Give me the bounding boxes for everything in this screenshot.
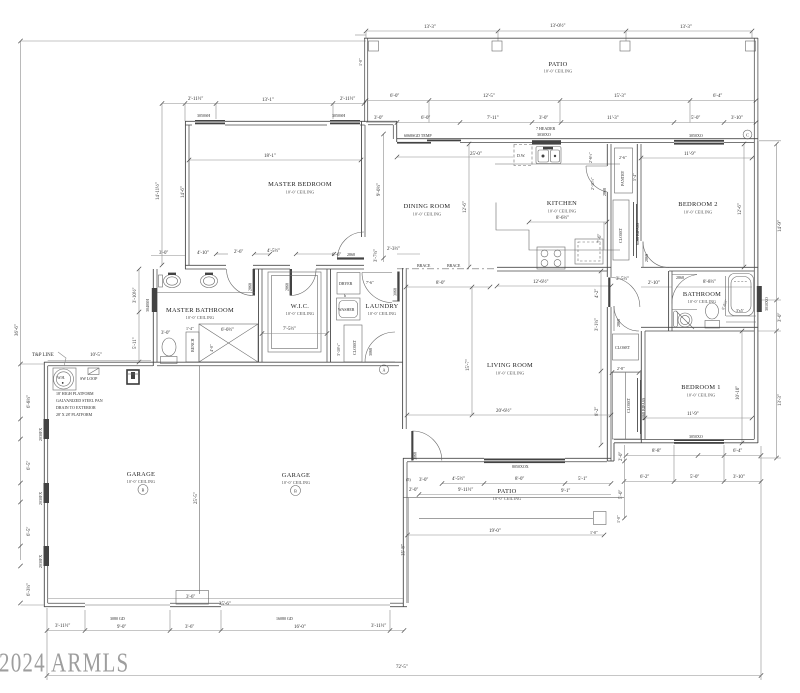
garage divider line [199, 366, 201, 594]
svg-text:8'-8½": 8'-8½" [703, 280, 716, 285]
bathroom vanity edge [672, 309, 697, 311]
interior dim 18-1 [189, 159, 361, 161]
bed1 closet bipass [637, 378, 639, 432]
svg-text:3050SH: 3050SH [332, 113, 345, 118]
living entry door 3068 [412, 431, 442, 461]
svg-text:GALVANIZED STEEL PAN: GALVANIZED STEEL PAN [56, 398, 103, 403]
hall dims left of closets [600, 271, 602, 445]
svg-text:KITCHEN: KITCHEN [547, 200, 577, 207]
svg-text:3'-0": 3'-0" [161, 331, 170, 336]
svg-text:8'-0": 8'-0" [436, 281, 445, 286]
svg-text:3'-11½": 3'-11½" [371, 624, 386, 629]
svg-text:10'-0' CEILING: 10'-0' CEILING [282, 480, 311, 485]
patio step box [594, 512, 607, 525]
patio post 2 [492, 41, 502, 51]
master bath window 3040SH [152, 288, 157, 312]
svg-text:4'-5½": 4'-5½" [452, 477, 465, 482]
svg-text:3080 GD: 3080 GD [110, 616, 125, 621]
svg-text:10'-0' CEILING: 10'-0' CEILING [127, 479, 156, 484]
svg-text:2868: 2868 [616, 319, 621, 327]
svg-text:2024 ARMLS: 2024 ARMLS [0, 648, 129, 678]
bathroom window 3010XO [757, 286, 762, 312]
bedroom2 left wall [636, 144, 638, 241]
svg-text:7'-11": 7'-11" [487, 116, 499, 121]
svg-text:11'-3": 11'-3" [607, 116, 619, 121]
svg-text:8'-8": 8'-8" [652, 449, 661, 454]
patio left wall [364, 38, 366, 122]
bedroom2 dim 12-6 [743, 144, 745, 267]
svg-text:6'-0": 6'-0" [390, 94, 399, 99]
svg-text:1'-0": 1'-0" [616, 515, 621, 523]
svg-text:14'-11½": 14'-11½" [156, 182, 161, 200]
bedroom1 dim 11-9 [645, 417, 752, 419]
svg-text:10'-0' CEILING: 10'-0' CEILING [684, 210, 713, 215]
svg-text:2030FX: 2030FX [38, 428, 43, 441]
garage interior dim 35-6 [48, 598, 403, 600]
svg-text:25'-5": 25'-5" [194, 492, 199, 504]
svg-text:13'-3": 13'-3" [680, 25, 692, 30]
svg-text:3050SH: 3050SH [197, 113, 210, 118]
svg-text:3'-0": 3'-0" [419, 478, 428, 483]
SW loop [88, 368, 99, 375]
bath band bottom wall [153, 361, 403, 363]
svg-text:6068SGD TEMP: 6068SGD TEMP [404, 133, 432, 138]
svg-text:1'-0": 1'-0" [358, 58, 363, 66]
hall door arc lower [365, 332, 395, 362]
panel box [127, 370, 139, 384]
laundry band: dryer [337, 273, 360, 295]
svg-text:3'-7½": 3'-7½" [374, 249, 379, 262]
bedroom1 dim 10-10 [741, 331, 743, 443]
patio post 1 [369, 41, 379, 51]
svg-text:b: b [344, 293, 346, 298]
water heater [54, 369, 74, 389]
sliding glass door 6068SGD [397, 142, 431, 144]
svg-text:14'-9": 14'-9" [778, 220, 783, 232]
kitchen-living south wall [497, 266, 611, 268]
svg-text:PANTRY: PANTRY [620, 170, 625, 186]
patio slab edge [403, 496, 624, 498]
patio top dimension line [366, 30, 752, 32]
garage door 16080 GD [221, 604, 390, 606]
dims below bedroom1 row2 [624, 481, 761, 483]
svg-text:2868: 2868 [602, 188, 607, 196]
svg-text:4'-0": 4'-0" [209, 344, 214, 352]
svg-text:2868: 2868 [644, 254, 649, 262]
svg-text:CLOSET: CLOSET [626, 397, 631, 413]
svg-text:8'-0": 8'-0" [515, 477, 524, 482]
svg-text:2030FX: 2030FX [38, 492, 43, 505]
bathroom toilet [706, 303, 719, 319]
svg-text:2030FX: 2030FX [38, 555, 43, 568]
svg-text:13'-3": 13'-3" [778, 394, 783, 406]
svg-text:3'-5½": 3'-5½" [616, 277, 629, 282]
svg-text:13'-1": 13'-1" [262, 98, 274, 103]
garage door step dim 3-6 [176, 591, 209, 605]
svg-text:8050XOX: 8050XOX [512, 464, 529, 469]
svg-text:3'-10½": 3'-10½" [336, 343, 341, 356]
svg-text:9'-1": 9'-1" [561, 489, 570, 494]
svg-text:A: A [383, 367, 386, 372]
patio dim 19-0 [408, 534, 605, 536]
svg-text:7'-6": 7'-6" [366, 280, 374, 285]
master bedroom left wall [184, 121, 186, 269]
vanity sink right [201, 275, 218, 288]
svg-text:C: C [746, 132, 749, 137]
svg-text:5'-4": 5'-4" [632, 173, 637, 181]
svg-text:8'-6½": 8'-6½" [556, 216, 569, 221]
right outer dimension column [776, 144, 778, 458]
water heater platform square [53, 368, 76, 390]
dims left column of bath band [138, 269, 140, 362]
master bath left wall [152, 269, 154, 366]
svg-text:7'-5½": 7'-5½" [283, 327, 296, 332]
living dim 20-6 [407, 414, 611, 416]
svg-text:6'-5": 6'-5" [27, 527, 32, 536]
svg-text:2'-10": 2'-10" [648, 281, 660, 286]
svg-text:11'-9": 11'-9" [687, 412, 699, 417]
vertical dim 14-11 [161, 104, 163, 266]
svg-text:6'-4": 6'-4" [713, 94, 722, 99]
svg-text:4'-2": 4'-2" [595, 289, 600, 298]
svg-text:28' X 28' PLATFORM: 28' X 28' PLATFORM [56, 412, 93, 417]
kitchen right wall [606, 144, 608, 166]
bath closet shelves [726, 315, 756, 317]
svg-text:2'-0": 2'-0" [619, 452, 624, 461]
svg-text:3068: 3068 [413, 452, 418, 460]
svg-text:3050XO: 3050XO [689, 434, 703, 439]
svg-text:10'-5": 10'-5" [90, 353, 102, 358]
dim 10-5 [48, 360, 151, 362]
svg-text:35'-6": 35'-6" [219, 602, 231, 607]
svg-text:15'-8": 15'-8" [402, 544, 407, 556]
svg-text:13'-3": 13'-3" [424, 25, 436, 30]
closet bipass doors [633, 202, 635, 256]
pantry [615, 148, 633, 193]
bed1 closet door arc [614, 306, 639, 331]
dishwasher [514, 145, 532, 166]
left wall window dims [18, 362, 22, 366]
svg-text:CLOSET: CLOSET [618, 227, 623, 243]
living window 8050XOX [484, 459, 565, 464]
bathroom bottom wall / bedroom1 top wall [641, 326, 758, 328]
svg-text:2'-6½": 2'-6½" [588, 152, 593, 163]
patio lower dim row2 [419, 494, 611, 496]
svg-text:6068 BIPASS: 6068 BIPASS [641, 398, 646, 420]
svg-text:12'-5": 12'-5" [483, 94, 495, 99]
bathroom left wall [668, 271, 670, 331]
dining vertical dim 12-6 [468, 144, 470, 267]
svg-text:11'-9": 11'-9" [684, 152, 696, 157]
garage door 3080 GD [85, 604, 170, 606]
brace line dining [397, 268, 497, 270]
svg-text:5'-1": 5'-1" [578, 477, 587, 482]
upper dim row over house [366, 100, 756, 102]
bedroom2 dim 11-9 [641, 157, 754, 159]
svg-text:13'-0½": 13'-0½" [550, 24, 566, 29]
svg-text:3'-1½": 3'-1½" [595, 318, 600, 331]
svg-text:3068: 3068 [368, 348, 373, 356]
svg-text:3'-10½": 3'-10½" [133, 287, 138, 303]
vanity counter [157, 292, 255, 294]
svg-text:B: B [142, 488, 145, 493]
bottom overall dimension 72-5 [47, 675, 761, 677]
svg-text:10'-0' CEILING: 10'-0' CEILING [368, 311, 397, 316]
bed1 tall closet [613, 372, 641, 439]
svg-text:15'-7": 15'-7" [466, 359, 471, 371]
svg-text:2'-11½": 2'-11½" [340, 97, 355, 102]
jog wall living to bedroom1 [607, 460, 614, 462]
svg-text:10'-0' CEILING: 10'-0' CEILING [286, 190, 315, 195]
svg-text:6'-4": 6'-4" [733, 449, 742, 454]
svg-text:1'-4": 1'-4" [186, 326, 194, 331]
svg-text:2868: 2868 [285, 283, 290, 291]
svg-text:2'-11½": 2'-11½" [590, 177, 595, 190]
svg-text:2868: 2868 [248, 283, 253, 291]
living room left wall [402, 268, 404, 429]
bedroom2 bottom wall [641, 266, 758, 268]
svg-text:2'-6": 2'-6" [619, 155, 627, 160]
svg-text:3'-11½": 3'-11½" [55, 624, 70, 629]
svg-text:6'-0½": 6'-0½" [221, 328, 234, 333]
hall closet below laundry [344, 325, 362, 362]
svg-text:8'-2": 8'-2" [595, 407, 600, 416]
svg-text:3'-0": 3'-0" [539, 116, 548, 121]
patio post 4 [746, 41, 756, 51]
laundry door arc top [362, 273, 392, 303]
svg-text:6'-3½": 6'-3½" [27, 583, 32, 596]
svg-text:LAUNDRY: LAUNDRY [366, 303, 399, 310]
svg-text:BENCH: BENCH [190, 338, 195, 352]
svg-text:4'-10": 4'-10" [197, 251, 209, 256]
svg-text:3030XO: 3030XO [537, 132, 551, 137]
kitchen to hall door [586, 166, 607, 192]
svg-text:2'-8": 2'-8" [617, 366, 625, 371]
svg-text:3'-0": 3'-0" [374, 116, 383, 121]
svg-text:10'-0' CEILING: 10'-0' CEILING [493, 496, 522, 501]
svg-text:MASTER BATHROOM: MASTER BATHROOM [166, 307, 234, 314]
bedroom1 left wall [640, 331, 642, 443]
window 3050SH left [195, 120, 225, 124]
svg-text:BATHROOM: BATHROOM [683, 291, 721, 298]
master bedroom right wall [361, 121, 363, 237]
bedroom1 window 3050XO [674, 439, 724, 444]
svg-text:3050XO: 3050XO [689, 133, 703, 138]
svg-text:5'-0": 5'-0" [691, 116, 700, 121]
header window 3030XO [532, 140, 561, 144]
svg-text:25'-0": 25'-0" [470, 152, 482, 157]
svg-text:BRACE: BRACE [447, 263, 461, 268]
svg-text:4'-5½": 4'-5½" [267, 249, 280, 254]
svg-text:2868: 2868 [347, 252, 355, 257]
svg-text:3'x5': 3'x5' [736, 308, 744, 313]
WIC shelving [268, 272, 321, 352]
svg-text:3'-6": 3'-6" [185, 625, 194, 630]
svg-text:3068: 3068 [393, 288, 398, 296]
svg-text:2'-11½": 2'-11½" [188, 97, 203, 102]
svg-text:12'-6": 12'-6" [738, 203, 743, 215]
svg-text:10'-10": 10'-10" [736, 386, 741, 400]
svg-text:12'-6½": 12'-6½" [533, 280, 549, 285]
dim 2-3 right of hall [397, 253, 420, 255]
svg-text:WASHER: WASHER [338, 307, 355, 312]
svg-text:1'-0": 1'-0" [590, 530, 598, 535]
living dim 15-7 [471, 287, 473, 415]
svg-text:6'-0": 6'-0" [421, 116, 430, 121]
bottom dim row garage [47, 630, 404, 632]
north house wall under patio [397, 138, 758, 140]
interior dim 25-0 [397, 156, 513, 158]
house right wall lower [757, 331, 759, 443]
master bedroom bottom wall [185, 264, 226, 266]
svg-text:BEDROOM 1: BEDROOM 1 [681, 384, 720, 391]
svg-text:10'-0' CEILING: 10'-0' CEILING [286, 311, 315, 316]
svg-text:MASTER BEDROOM: MASTER BEDROOM [268, 181, 332, 188]
svg-text:10'-0' CEILING: 10'-0' CEILING [544, 69, 573, 74]
garage right wall [402, 458, 404, 607]
patio lower dim row1 [442, 483, 611, 485]
svg-text:16080 GD: 16080 GD [276, 616, 293, 621]
svg-text:GARAGE: GARAGE [282, 472, 310, 479]
svg-text:9'-11½": 9'-11½" [458, 488, 473, 493]
garage bottom wall [44, 606, 85, 608]
kitchen counter back edge [495, 163, 620, 165]
outer dimension line left [20, 41, 22, 560]
svg-text:20'-6½": 20'-6½" [496, 409, 512, 414]
bed1 small closet [613, 334, 639, 360]
svg-text:6'-5": 6'-5" [27, 461, 32, 470]
svg-text:16'-0": 16'-0" [294, 625, 306, 630]
svg-text:2'-6": 2'-6" [234, 250, 243, 255]
shower [199, 324, 258, 362]
svg-text:6068 BIPASS: 6068 BIPASS [635, 223, 640, 245]
svg-text:10'-0' CEILING: 10'-0' CEILING [186, 315, 215, 320]
svg-text:CLOSET: CLOSET [615, 345, 631, 350]
washer [337, 298, 361, 320]
garage windows 2030FX [44, 419, 50, 439]
svg-text:DRAIN TO EXTERIOR: DRAIN TO EXTERIOR [56, 405, 96, 410]
svg-text:DRYER: DRYER [339, 281, 353, 286]
garage top wall [44, 361, 153, 363]
living bottom wall [403, 457, 484, 459]
svg-text:W.I.C.: W.I.C. [291, 303, 310, 310]
svg-text:LIVING ROOM: LIVING ROOM [487, 362, 533, 369]
bedroom2 door arc [643, 242, 669, 268]
svg-text:5'-0": 5'-0" [690, 475, 699, 480]
svg-text:36'-6": 36'-6" [15, 324, 20, 336]
door to WIC arc [291, 269, 317, 296]
dims below bedroom1 row1 [626, 455, 761, 457]
stove [537, 247, 565, 269]
svg-text:3'-6": 3'-6" [186, 595, 195, 600]
master bedroom dim row top [185, 103, 364, 105]
second dim row over house wall [366, 122, 756, 124]
svg-text:3040SH: 3040SH [145, 299, 150, 312]
house right wall upper [757, 141, 759, 331]
svg-text:7'-6": 7'-6" [598, 234, 603, 243]
bench [186, 332, 199, 362]
svg-text:D.W.: D.W. [517, 153, 525, 158]
kitchen sink [536, 147, 561, 164]
svg-text:9'-0": 9'-0" [117, 625, 126, 630]
patio post 3 [620, 41, 630, 51]
svg-text:72'-5": 72'-5" [396, 665, 408, 670]
bathroom door arc [672, 275, 697, 304]
svg-text:2868: 2868 [676, 275, 684, 280]
svg-text:10'-0' CEILING: 10'-0' CEILING [548, 209, 577, 214]
hall closet tall [613, 200, 629, 260]
living room right wall [606, 271, 608, 277]
svg-text:T&P LINE: T&P LINE [32, 353, 54, 358]
svg-text:5'-11": 5'-11" [133, 337, 138, 349]
svg-text:6'-8½": 6'-8½" [27, 395, 32, 408]
jog wall from master bedroom to house wall [364, 120, 397, 122]
svg-text:10'-0' CEILING: 10'-0' CEILING [687, 393, 716, 398]
WIC walls [258, 269, 260, 362]
patio right wall [753, 38, 755, 141]
svg-text:CLOSET: CLOSET [352, 339, 357, 355]
svg-text:18'-1": 18'-1" [264, 154, 276, 159]
bathroom sink [678, 313, 692, 327]
hall door from living room [608, 278, 610, 308]
patio dim 15-8 [408, 497, 410, 603]
patio top wall [364, 37, 758, 39]
elevation marker C [743, 130, 752, 139]
svg-text:3'-0": 3'-0" [778, 313, 783, 322]
towel bar [159, 275, 163, 287]
svg-text:BRACE: BRACE [417, 263, 431, 268]
master bath toilet [162, 338, 176, 356]
svg-text:GARAGE: GARAGE [127, 471, 155, 478]
bedroom1 bottom wall [614, 442, 758, 444]
vanity sink left [164, 275, 181, 288]
svg-text:10'-0' CEILING: 10'-0' CEILING [413, 212, 442, 217]
kitchen island counter [496, 203, 620, 251]
door to master bath arc [227, 269, 254, 296]
svg-text:14'-6": 14'-6" [181, 186, 186, 198]
svg-text:19'-0": 19'-0" [489, 529, 501, 534]
svg-text:2'-3½": 2'-3½" [387, 247, 400, 252]
svg-text:BEDROOM 2: BEDROOM 2 [678, 201, 717, 208]
svg-text:SW LOOP: SW LOOP [80, 376, 98, 381]
svg-text:B: B [294, 489, 297, 494]
svg-text:18' HIGH PLATFORM: 18' HIGH PLATFORM [56, 391, 94, 396]
svg-text:7 HEADER: 7 HEADER [536, 126, 556, 131]
svg-text:6'-2": 6'-2" [640, 475, 649, 480]
svg-text:12'-6": 12'-6" [463, 201, 468, 213]
svg-text:PATIO: PATIO [548, 61, 567, 68]
garage left wall [43, 362, 45, 607]
window 3050SH right [330, 120, 360, 124]
patio walk edge [419, 517, 593, 519]
svg-text:3'-10": 3'-10" [733, 475, 745, 480]
outer dimension line top-left [21, 40, 367, 42]
master bedroom top wall [185, 120, 364, 122]
bedroom2 window 3050XO [674, 140, 724, 145]
svg-text:3'-10": 3'-10" [731, 116, 743, 121]
master bedroom entry door arc [338, 232, 365, 259]
svg-text:PATIO: PATIO [497, 488, 516, 495]
svg-text:9'-0½": 9'-0½" [377, 183, 382, 196]
svg-text:DINING ROOM: DINING ROOM [404, 203, 451, 210]
svg-text:10'-0' CEILING: 10'-0' CEILING [496, 371, 525, 376]
bathtub [729, 274, 754, 316]
svg-text:3010XO: 3010XO [764, 297, 769, 311]
refrigerator [575, 239, 603, 264]
svg-text:2'-0": 2'-0" [409, 488, 418, 493]
svg-text:15'-3": 15'-3" [614, 94, 626, 99]
elevation marker A [379, 365, 388, 374]
